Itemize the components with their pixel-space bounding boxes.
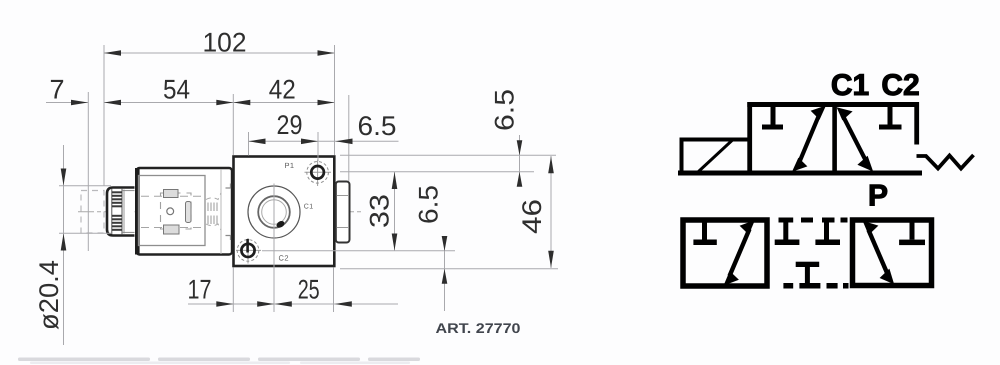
center screw circle xyxy=(167,208,174,215)
svg-text:C2: C2 xyxy=(881,69,919,102)
main box top edge xyxy=(747,102,918,107)
dim line 29 / 6.5 xyxy=(249,140,399,142)
solenoid symbol box xyxy=(682,140,750,172)
svg-text:6.5: 6.5 xyxy=(414,185,444,224)
solenoid thick left edge xyxy=(135,168,140,255)
svg-text:7: 7 xyxy=(49,75,64,105)
left position box xyxy=(683,220,767,286)
left cell blocked port T xyxy=(771,107,776,126)
33 arrows xyxy=(392,172,398,189)
svg-text:P: P xyxy=(868,180,888,213)
middle cell top dashed border xyxy=(779,218,848,223)
102 arrows xyxy=(104,50,121,56)
centerline (valve axis) xyxy=(78,211,363,213)
valve body block xyxy=(234,157,335,267)
corner mark upper right xyxy=(226,184,231,189)
hidden dashed line lower xyxy=(141,227,203,229)
ext line block top level (y155.2) xyxy=(340,154,556,156)
dia20.4 vertical dim line xyxy=(63,145,65,345)
ext line x233 (block left for 54/42) xyxy=(232,94,234,155)
knurl strip edges xyxy=(111,189,113,234)
svg-text:6.5: 6.5 xyxy=(358,111,397,141)
spline hatch upper xyxy=(208,203,217,225)
ext line P1 center level (y171.8) xyxy=(340,171,534,173)
svg-text:17: 17 xyxy=(188,275,212,305)
main box bottom edge (shared with solenoid) xyxy=(678,171,922,176)
svg-text:102: 102 xyxy=(203,28,247,58)
ext line x88 (7 left) xyxy=(87,92,89,251)
dim line 54/42 xyxy=(104,102,335,104)
left box blocked port T xyxy=(702,223,707,240)
6.5 top-h arrow xyxy=(336,139,353,145)
dim line 6.5 mid xyxy=(444,236,446,311)
54 right arrow + 42 left arrow xyxy=(216,100,233,106)
top terminal block xyxy=(164,190,179,198)
dim line 6.5 top right xyxy=(519,135,521,186)
hidden ghost rectangle left of knob xyxy=(81,191,104,234)
svg-text:46: 46 xyxy=(517,199,547,234)
left cell flow arrow xyxy=(799,114,820,163)
right cell blocked port T xyxy=(888,107,893,126)
bottom scan artifact band xyxy=(18,358,420,362)
main box right edge (upper part, gap below) xyxy=(914,102,919,145)
hidden hook upper xyxy=(206,193,221,200)
dia20.4 arrows xyxy=(61,169,67,186)
ext line x104 (knob left / 7-54-102) xyxy=(103,45,105,186)
solenoid inner frame xyxy=(139,176,206,246)
divider xyxy=(832,104,837,173)
ext line x334.5 (block right for 102/42) xyxy=(334,45,336,155)
svg-text:ART. 27770: ART. 27770 xyxy=(436,320,521,336)
ext line C2 center level (y250.8) xyxy=(262,250,455,252)
port C2 xyxy=(236,238,261,264)
svg-text:P1: P1 xyxy=(285,161,295,170)
7 arrows xyxy=(71,100,88,106)
svg-text:54: 54 xyxy=(163,75,190,105)
knurl bars xyxy=(112,191,122,231)
C1 vertical centerline / extension xyxy=(273,184,275,313)
right protrusion (cartridge nut) xyxy=(336,182,350,243)
46 arrows xyxy=(548,156,554,173)
port P1 xyxy=(305,160,332,187)
right box blocked port T xyxy=(910,223,915,240)
svg-text:C1: C1 xyxy=(304,204,314,211)
svg-text:25: 25 xyxy=(298,275,320,305)
arrowheads xyxy=(61,50,554,307)
right box flow arrow xyxy=(869,230,888,274)
svg-text:ø20.4: ø20.4 xyxy=(34,260,64,330)
corner mark lower right xyxy=(226,236,231,241)
29 arrows xyxy=(249,139,266,145)
dim line 33 xyxy=(394,172,396,251)
port C1 xyxy=(248,186,300,238)
svg-text:C2: C2 xyxy=(279,254,289,263)
middle cell bottom dashed border xyxy=(783,283,848,289)
left box flow arrow xyxy=(730,229,750,276)
hidden dashed line upper xyxy=(141,195,203,197)
hidden dashed rect (terminal housing) xyxy=(161,193,192,229)
middle cell blocked inverted T (bottom) xyxy=(796,262,820,267)
spring xyxy=(917,155,974,169)
main box left edge xyxy=(747,102,752,176)
dim line 46 xyxy=(550,156,552,268)
right cell flow arrow xyxy=(843,115,867,161)
knob (knurled manual override button) xyxy=(107,188,135,236)
svg-text:33: 33 xyxy=(365,194,395,228)
svg-text:6.5: 6.5 xyxy=(490,89,520,131)
middle cell blocked T (left) xyxy=(783,220,788,240)
dia20.4 ext lines xyxy=(59,185,111,187)
ext line x248.5 (29 left) xyxy=(248,132,250,156)
side terminal bar xyxy=(186,202,192,223)
6.5 top-right arrows (outside) xyxy=(517,140,523,155)
solenoid / connector body xyxy=(137,168,233,255)
svg-text:42: 42 xyxy=(269,75,296,105)
svg-text:29: 29 xyxy=(277,110,303,140)
bottom terminal block xyxy=(164,225,180,234)
hidden vertical line near solenoid right edge xyxy=(220,169,222,254)
ext line x348.8 (6.5 protrusion right) xyxy=(348,95,350,181)
dim line 102 xyxy=(104,52,335,54)
protrusion inner lines xyxy=(337,195,350,197)
dim line 7 leader xyxy=(46,102,88,104)
42 right arrow xyxy=(318,100,335,106)
6.5 mid arrows (outside) xyxy=(442,236,448,251)
17/25 arrows xyxy=(216,301,233,307)
ext lines below block for 17/25 xyxy=(232,268,234,313)
middle cell blocked T (right) xyxy=(824,220,829,240)
ext line block bottom level (y268.7) xyxy=(340,268,558,270)
dim line 17 / 25 xyxy=(188,303,398,305)
right position box xyxy=(853,220,932,286)
hidden hook lower xyxy=(206,224,221,230)
solenoid diagonal xyxy=(699,140,733,172)
knob body lines xyxy=(123,190,125,234)
ext line x318 (29 right / P1 center) xyxy=(317,132,319,161)
svg-text:C1: C1 xyxy=(831,69,869,102)
